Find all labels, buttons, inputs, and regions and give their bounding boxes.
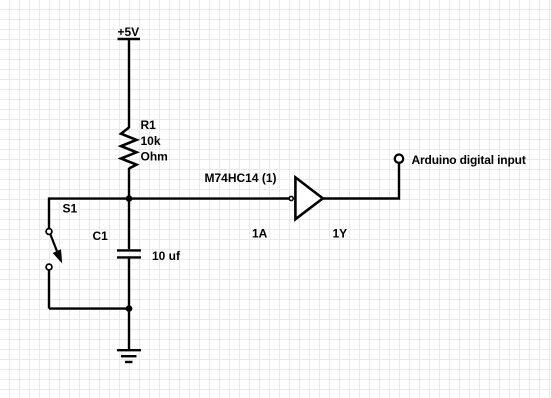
switch S1 arm [50,234,57,252]
wire switch bottom lead [48,270,50,309]
resistor R1 [121,128,137,169]
svg-text:M74HC14 (1): M74HC14 (1) [205,171,277,185]
power +5V rail bar [118,38,141,41]
switch S1 top contact [46,229,52,235]
svg-text:Arduino digital input: Arduino digital input [412,153,526,167]
inverter U1 M74HC14 triangle [295,177,322,219]
wire inverter output to terminal [323,164,399,199]
switch S1 arm arrowhead [54,251,61,262]
svg-text:C1: C1 [93,229,109,243]
wire from resistor R1 to node A [128,168,130,199]
svg-text:S1: S1 [63,202,78,216]
svg-text:1A: 1A [252,227,268,241]
wire node A to capacitor C1 [128,199,130,250]
switch S1 [46,197,129,308]
svg-text:10 uf: 10 uf [152,249,181,263]
switch S1 bottom contact [46,264,52,270]
wire switch to bottom node [49,307,129,309]
svg-text:1Y: 1Y [333,227,348,241]
svg-text:R1: R1 [141,118,157,132]
node A junction dot [126,195,133,202]
inverter U1 input bubble [289,196,293,200]
bottom node junction dot [126,305,133,312]
svg-text:10k: 10k [141,134,161,148]
wire switch top lead [48,197,50,228]
svg-text:Ohm: Ohm [141,150,168,164]
wire node A to inverter input [129,197,289,200]
capacitor C1 bottom plate [117,256,141,258]
wire node A to switch S1 [49,197,129,199]
capacitor C1 top plate [117,249,141,251]
ground [117,350,141,362]
terminal circle Arduino digital input [395,155,403,163]
wire bottom node to ground [128,309,130,350]
svg-text:+5V: +5V [118,25,140,39]
wire capacitor C1 to bottom node [128,259,130,309]
wire from +5V to resistor R1 [128,39,130,128]
